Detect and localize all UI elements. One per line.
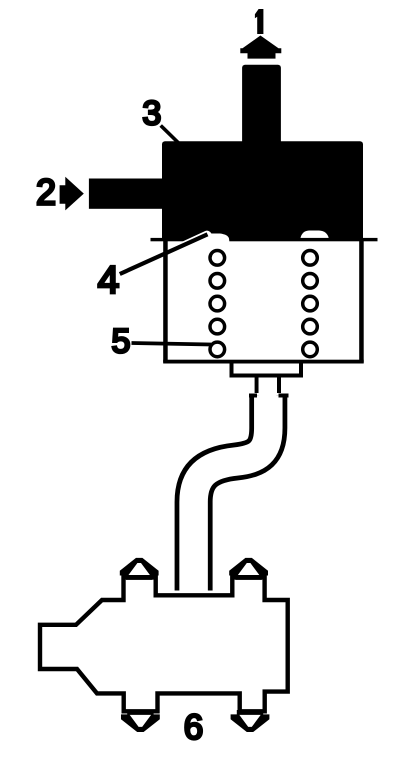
tube top shoulders	[249, 394, 257, 398]
right wall	[359, 239, 364, 363]
port arrow bottom-left	[121, 710, 160, 732]
notch left (white gap, end of leader halo)	[202, 234, 230, 243]
port arrow top-left	[120, 558, 159, 580]
engine block outline	[40, 577, 288, 711]
springs: right column	[303, 250, 318, 356]
arrow 1 (solid up arrow above stem)	[240, 36, 281, 59]
svg-text:6: 6	[184, 708, 203, 747]
svg-text:2: 2	[36, 172, 56, 213]
halo around leader 4 inside black band	[185, 235, 208, 245]
notch right (white hump in black bottom edge)	[301, 231, 329, 242]
svg-text:3: 3	[142, 94, 161, 132]
svg-text:4: 4	[98, 259, 120, 302]
valve lower body: left wall	[163, 239, 168, 363]
horizontal line (diaphragm boundary)	[151, 238, 378, 241]
label 1	[255, 9, 264, 34]
outlet step 2 (neck)	[257, 378, 279, 394]
pipe port 2	[89, 179, 162, 209]
outlet step 1 (wide)	[232, 362, 302, 376]
svg-text:5: 5	[112, 323, 131, 361]
port arrow top-right	[229, 558, 268, 580]
port arrow bottom-right	[231, 710, 270, 732]
leader line 3	[161, 126, 179, 144]
S-shaped tube to engine	[194, 396, 269, 591]
leader line 5	[132, 343, 212, 345]
arrow 2 (solid right arrow)	[60, 177, 84, 211]
leader line 4	[120, 234, 208, 274]
stem pipe to port 1	[242, 65, 281, 145]
solenoid body (black box)	[162, 141, 363, 241]
bottom edge	[163, 360, 364, 364]
springs: left column	[210, 250, 225, 356]
neck opening	[259, 378, 277, 398]
